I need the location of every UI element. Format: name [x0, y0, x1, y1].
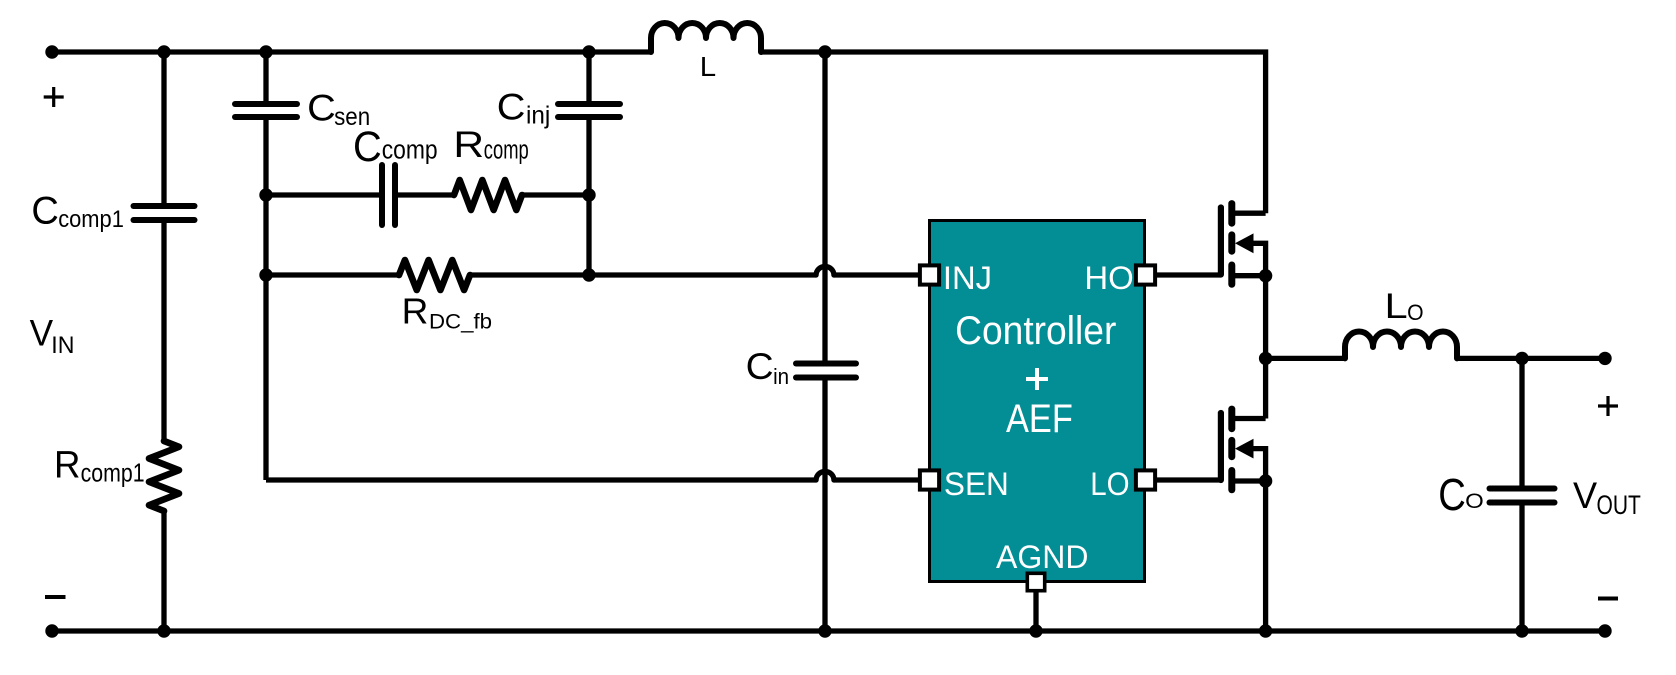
transistor Q1 source stub	[1232, 273, 1266, 278]
pin LO	[1136, 470, 1155, 489]
node C_comp1 top	[157, 45, 170, 58]
resistor R_DC_fb	[399, 260, 470, 290]
op-amp U1 controller box	[930, 221, 1145, 582]
node R_DC_fb right	[582, 268, 595, 281]
node C_in bottom	[818, 624, 831, 637]
svg-text:HO: HO	[1084, 260, 1133, 296]
node comp branch left	[259, 188, 272, 201]
label plus output	[1598, 396, 1618, 416]
capacitor C_inj	[558, 104, 620, 117]
node Q2 source	[1259, 474, 1272, 487]
capacitor C_sen	[235, 104, 297, 117]
transistor Q2 source stub	[1232, 478, 1266, 483]
capacitor C_comp	[382, 165, 395, 225]
svg-text:LO: LO	[1090, 466, 1129, 502]
transistor Q2 channel segments	[1228, 409, 1235, 490]
wire C_inj down to INJ net	[586, 120, 591, 275]
wire HO gate lead	[1157, 272, 1221, 277]
wire comp branch left	[266, 192, 382, 197]
node R_comp1 bottom	[157, 624, 170, 637]
transistor Q1 body arrow	[1235, 233, 1254, 253]
wire SEN horizontal right of hop	[834, 477, 918, 482]
wire hop INJ over C_in line	[816, 266, 834, 275]
node AGND bottom	[1029, 624, 1042, 637]
svg-text:Controller: Controller	[955, 309, 1116, 353]
inductor L_O	[1345, 332, 1457, 359]
wire C_O branch upper	[1519, 358, 1524, 485]
node L_O output junction	[1515, 352, 1528, 365]
wire R_comp to C_inj node	[522, 192, 589, 197]
wire C_comp1 branch upper	[161, 52, 166, 203]
wire LO gate lead	[1157, 477, 1221, 482]
wire C_comp1 to R_comp1	[161, 223, 166, 441]
pin SEN	[920, 470, 939, 489]
node V_OUT minus terminal	[1598, 624, 1611, 637]
wire L_O to V_OUT terminal	[1457, 356, 1605, 361]
wire R_DC_fb branch left	[266, 272, 399, 277]
wire INJ horizontal left of hop	[589, 272, 816, 277]
label plus AEF	[1026, 368, 1048, 390]
wire top rail right into Q1 drain	[761, 52, 1266, 213]
transistor Q1 channel segments	[1228, 204, 1235, 285]
label minus output	[1598, 597, 1618, 601]
wire Q2 drain to switch node	[1263, 358, 1268, 418]
label minus input	[45, 595, 66, 599]
svg-text:AEF: AEF	[1006, 397, 1073, 441]
transistor Q2 gate bar	[1218, 413, 1224, 480]
wire C_comp to R_comp	[395, 192, 454, 197]
capacitor C_O	[1490, 489, 1555, 503]
wire hop SEN over C_in line	[816, 471, 834, 480]
node input minus terminal	[45, 624, 58, 637]
wire C_sen branch upper	[263, 52, 268, 101]
svg-text:L: L	[700, 51, 716, 82]
node C_in top	[818, 45, 831, 58]
wire C_sen down to SEN corner	[263, 120, 268, 480]
wire SEN horizontal left of hop	[266, 477, 816, 482]
svg-text:INJ: INJ	[943, 260, 992, 296]
svg-text:AGND: AGND	[996, 539, 1088, 575]
transistor Q2 body arrow	[1235, 439, 1254, 459]
node C_sen top	[259, 45, 272, 58]
capacitor C_in	[796, 364, 856, 378]
wire top rail left	[52, 49, 651, 54]
node C_O bottom	[1515, 624, 1528, 637]
node input plus terminal	[45, 45, 58, 58]
wire C_in to bottom rail	[822, 380, 827, 631]
wire C_inj branch upper	[586, 52, 591, 101]
node R_DC_fb left	[259, 268, 272, 281]
node V_OUT plus terminal	[1598, 352, 1611, 365]
node Q1 source	[1259, 269, 1272, 282]
pin AGND	[1027, 573, 1044, 590]
svg-text:SEN: SEN	[944, 466, 1009, 502]
wire INJ horizontal right of hop	[834, 272, 918, 277]
resistor R_comp	[454, 180, 522, 210]
transistor Q1 body stub	[1250, 243, 1266, 275]
wire C_O to bottom rail	[1519, 506, 1524, 632]
transistor Q2 body stub	[1250, 449, 1266, 481]
transistor Q1 drain stub	[1232, 211, 1266, 216]
resistor R_comp1	[149, 441, 179, 511]
node comp branch right	[582, 188, 595, 201]
capacitor C_comp1	[134, 206, 195, 220]
inductor L	[651, 23, 761, 52]
wire Q2 source to bottom rail	[1263, 481, 1268, 631]
node switch	[1259, 352, 1272, 365]
wire switch node to L_O	[1266, 356, 1345, 361]
wire R_DC_fb to C_inj node	[470, 272, 589, 277]
pin HO	[1136, 265, 1155, 284]
wire R_comp1 to bottom rail	[161, 511, 166, 631]
node C_inj top	[582, 45, 595, 58]
wire Q1 source to switch node	[1263, 276, 1268, 359]
wire bottom rail	[52, 628, 1605, 633]
wire C_in branch upper	[822, 52, 827, 361]
pin INJ	[920, 265, 939, 284]
wire AGND lead	[1033, 592, 1038, 631]
label plus input	[44, 87, 64, 107]
node Q2 source bottom	[1259, 624, 1272, 637]
transistor Q2 drain stub	[1232, 416, 1266, 421]
transistor Q1 gate bar	[1218, 208, 1224, 275]
